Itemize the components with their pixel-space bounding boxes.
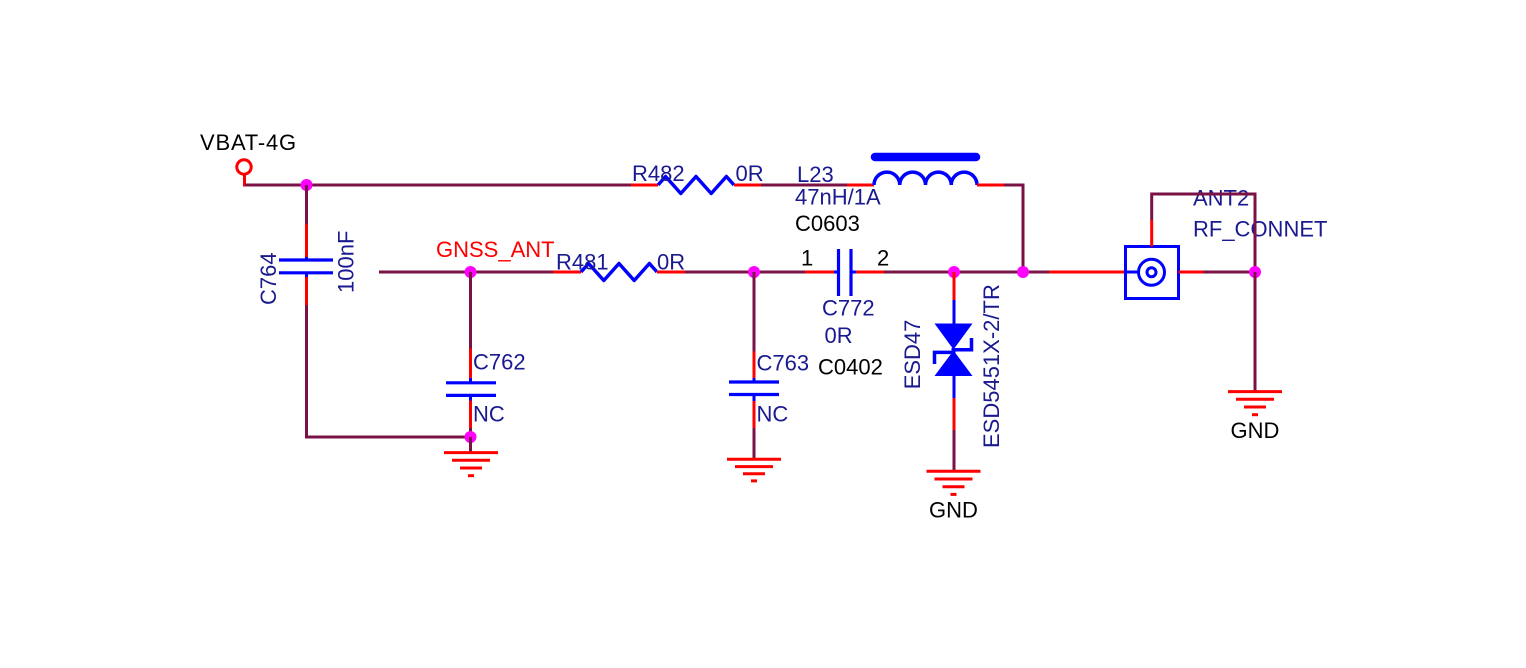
wire R481 to C772: [685, 271, 805, 274]
capacitor C772: [801, 246, 889, 380]
resistor R481: [553, 250, 685, 281]
svg-text:0R: 0R: [657, 250, 685, 275]
junction at C763 top: [748, 266, 760, 278]
svg-text:ESD5451X-2/TR: ESD5451X-2/TR: [979, 284, 1004, 448]
junction at L23 branch: [1017, 266, 1029, 278]
svg-text:0R: 0R: [736, 161, 764, 186]
wire GNSS_ANT rail: [379, 271, 553, 274]
svg-text:C772: C772: [822, 296, 875, 321]
wire C764 bottom to C762 gnd junction: [307, 305, 471, 437]
svg-text:GNSS_ANT: GNSS_ANT: [436, 237, 555, 262]
svg-text:NC: NC: [473, 402, 505, 427]
junction at C762 top: [465, 266, 477, 278]
wire C772 to ESD junction: [884, 271, 1049, 274]
inductor L23: [795, 157, 1004, 236]
svg-text:0R: 0R: [825, 323, 853, 348]
wire connector right to junction: [1204, 271, 1256, 274]
svg-text:GND: GND: [929, 498, 978, 523]
svg-text:C763: C763: [757, 351, 810, 376]
power port VBAT-4G: [200, 130, 297, 187]
wire connector top loop: [1152, 194, 1255, 272]
RF connector ANT2: [1126, 186, 1328, 299]
junction at ANT2 output: [1249, 266, 1261, 278]
svg-text:47nH/1A: 47nH/1A: [795, 185, 881, 210]
svg-text:NC: NC: [757, 402, 789, 427]
svg-text:L23: L23: [797, 162, 834, 187]
wire L23 to right column down: [1004, 185, 1023, 272]
svg-text:VBAT-4G: VBAT-4G: [200, 130, 297, 155]
wire to RF connector: [1049, 271, 1126, 274]
svg-text:2: 2: [877, 246, 889, 271]
svg-text:ESD47: ESD47: [900, 320, 925, 390]
svg-text:ANT2: ANT2: [1193, 186, 1249, 211]
ground under C762: [444, 437, 498, 476]
svg-text:C764: C764: [256, 252, 281, 305]
svg-text:1: 1: [801, 246, 813, 271]
capacitor C762: [446, 272, 526, 437]
ground under ESD47: [927, 471, 981, 522]
capacitor C764: [256, 185, 359, 305]
junction at ESD47 top: [948, 266, 960, 278]
svg-text:RF_CONNET: RF_CONNET: [1193, 217, 1327, 242]
svg-text:R481: R481: [556, 250, 609, 275]
ground under ANT2: [1228, 392, 1282, 443]
svg-text:C0402: C0402: [818, 355, 883, 380]
svg-text:100nF: 100nF: [334, 231, 359, 293]
TVS diode ESD47: [900, 272, 1004, 471]
junction at C762 bottom: [465, 431, 477, 443]
svg-text:C762: C762: [473, 350, 526, 375]
wire junction down to ground: [1254, 272, 1257, 392]
capacitor C763: [729, 272, 809, 459]
wire R482 to L23: [761, 184, 847, 187]
junction at C764 top: [301, 179, 313, 191]
svg-text:GND: GND: [1231, 418, 1280, 443]
svg-text:R482: R482: [632, 161, 685, 186]
ground under C763: [727, 459, 781, 481]
svg-text:C0603: C0603: [795, 211, 860, 236]
resistor R482: [631, 161, 764, 194]
wire top rail VBAT to R482: [245, 184, 631, 187]
